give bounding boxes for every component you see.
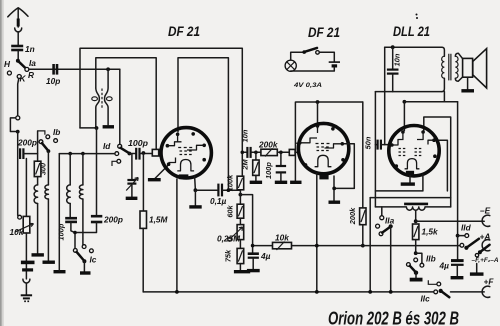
svg-text:100p: 100p [264,162,273,179]
grid cap square V1 [152,149,158,156]
wire to bar [47,199,49,261]
coil L2a [34,185,38,204]
svg-text:DF 21: DF 21 [308,25,340,40]
wire heater return [369,198,371,292]
cathode ground bar V1 [148,165,169,180]
wire to bar [71,222,75,232]
svg-text:IId: IId [461,223,472,233]
svg-text:200p: 200p [103,215,123,225]
resistor 2M to ground [240,152,262,182]
capacitor 1n [11,44,34,60]
svg-text:10p: 10p [46,76,60,86]
terminal +F arc [482,286,490,297]
node coil junction [68,152,72,156]
wire y153.5 left section [59,153,115,155]
svg-text:300: 300 [39,162,48,175]
capacitor 10n [387,47,402,91]
tube V1 DF21 [161,128,211,180]
coil L2b [45,185,49,199]
switch IIa [376,207,395,236]
capacitor 0,1u [210,184,227,206]
wire under V3 a [375,175,423,191]
resistor 200k horizontal [258,140,278,157]
wire B+ rail V2 [296,101,363,103]
chassis bar [54,270,66,273]
svg-text:H: H [4,59,11,69]
svg-text:1,5M: 1,5M [149,215,169,225]
wire to grid cap [140,153,152,155]
wire Ib top drop [37,131,39,161]
svg-text:4µ: 4µ [439,261,450,271]
wire grid line V2 [242,151,246,153]
svg-text:75k: 75k [224,249,233,262]
contact Id lower [115,152,119,156]
ground symbol [21,283,32,301]
node: antenna switch junction [16,59,20,63]
capacitor 100p [128,138,148,160]
wire to bar [37,204,39,255]
scan edge shading [0,0,2,326]
svg-text:60k: 60k [225,204,234,217]
wire Ib arm drop [47,151,49,185]
svg-text:10n: 10n [393,53,402,66]
svg-text:–E: –E [480,206,491,216]
chassis bar under osc [103,125,114,128]
wire L3b drop [82,154,84,185]
svg-text:10k: 10k [10,227,24,237]
wire under V3 b [370,197,451,199]
wire y153 corner to L3a [69,154,71,185]
svg-text:100p: 100p [57,223,66,240]
svg-text:10n: 10n [241,129,250,142]
resistor 100k [225,174,243,191]
chassis bar [43,261,55,264]
resistor 1,5k [413,224,439,253]
resistor 10k horizontal [273,233,292,251]
terminal +A [480,232,491,251]
wire DLL top frame [385,46,442,48]
wire anode 2 V3 [435,140,447,191]
capacitor 4u second [439,236,464,278]
svg-text:IIa: IIa [385,216,395,226]
wire anode/AVC y190 [195,189,217,191]
svg-text:IIb: IIb [426,254,436,264]
svg-text:1n: 1n [25,44,35,54]
bus right section [451,291,485,293]
plug bracket [10,118,15,132]
output transformer T1 [442,47,463,91]
wire link rails [443,92,445,102]
wire to Ic [82,199,84,245]
wire down to 200k V2 [362,102,364,208]
capacitor 100p grid V2 [264,152,287,182]
trimmer capacitor [126,154,139,199]
wire pot chain down [25,233,27,279]
capacitor 50n [363,136,390,149]
svg-text:+F: +F [484,277,495,287]
wire osc bottom [80,127,96,129]
filament lead V2 left [316,173,318,292]
wire outer loop [80,48,242,176]
center tap node [414,210,418,223]
wire to V2 top pin [317,102,319,128]
cathode bar V2 [290,181,301,184]
filament choke core [404,203,428,206]
speaker [461,49,486,91]
coil L3b [79,185,83,199]
switch IId [456,223,479,250]
svg-text:IIc: IIc [421,294,431,304]
wire B+ rail V3 [403,100,458,104]
wire coupling line x375 [374,92,376,207]
wire antenna RF line [29,68,120,70]
wire drop to Id [119,69,121,144]
resistor 200k V2 anode [348,207,366,248]
coil L3a [67,185,71,204]
wire from K down [18,78,19,115]
capacitor 4u first [247,251,271,271]
svg-text:Ic: Ic [90,255,97,265]
filament lead V1 right + node [189,176,201,207]
switch -F/+F [472,245,499,264]
wire to 100p [129,153,135,155]
wire inner loop 2 [178,58,228,190]
wire down to pot wiper [17,132,19,216]
tube V3 DLL21 [389,126,439,176]
svg-text:–F,+F₂–A: –F,+F₂–A [472,257,499,264]
switch IIb [407,251,436,279]
svg-text:DLL 21: DLL 21 [393,24,430,39]
svg-text:Orion 202 B és 302 B: Orion 202 B és 302 B [328,309,459,326]
filament choke winding [375,207,450,210]
capacitor 10p [46,64,60,86]
switch IIc [421,280,450,303]
wire 200p down [75,222,97,248]
capacitor 200p second [91,215,123,225]
resistor 300 [34,161,47,185]
capacitor 100p series [241,129,251,158]
chassis bar narrow [22,268,33,271]
cathode bar V3 [401,175,415,184]
wire lower frame [375,91,441,93]
svg-text:10k: 10k [275,233,289,243]
ground bar under 75k [234,264,250,272]
contact K [17,75,21,79]
wire IIa to bus [390,226,392,292]
svg-text:4V 0,3A: 4V 0,3A [293,82,322,89]
contact H [7,71,11,75]
svg-text:100p: 100p [128,138,148,148]
capacitor 1000p [57,218,77,240]
svg-text:200k: 200k [348,207,357,225]
dial lamp circuit [285,48,340,89]
antenna [8,8,28,45]
terminal -E [480,206,491,227]
svg-text:Id: Id [103,141,111,151]
wire AVC to 10k line [240,195,252,253]
svg-text:Ia: Ia [29,58,36,68]
potentiometer 0,25M [217,218,244,243]
svg-text:DF 21: DF 21 [168,24,200,39]
potentiometer 10k [10,159,34,238]
node 1.5M tap [142,151,146,155]
svg-text:Ib: Ib [53,127,60,137]
wire to V2 left pin [294,102,296,181]
chassis bar [32,253,44,256]
svg-text:200k: 200k [258,140,278,150]
svg-text:200p: 200p [17,138,37,148]
wire inner loop 1 [96,58,156,149]
node junction [16,130,20,134]
wire HT down right side [457,102,459,236]
connector Ib upper contact [16,116,20,120]
chassis bar wide [21,261,35,265]
contact Id aux [112,159,121,166]
tube V2 DF21 [298,123,349,179]
svg-text:100k: 100k [225,174,234,191]
svg-text:0,25M: 0,25M [217,234,241,244]
wire -E line [416,220,485,222]
switch Ia [4,58,36,84]
bottom bus [143,291,434,293]
node under 100k [239,193,243,197]
wire left frame side [384,47,386,144]
anode jog V2 [334,144,354,189]
switch Ic [73,245,96,273]
node 10k/V2 filament [315,244,319,248]
wire to V3 top pin [403,102,404,132]
ink speck [416,14,418,16]
switch Id [103,141,129,153]
node Id arm [127,152,131,156]
wire IF return [58,154,60,271]
svg-text:0,1µ: 0,1µ [210,196,227,206]
oscillator coil L1 [92,69,112,126]
grid cap square V2 [289,149,295,155]
svg-text:1,5k: 1,5k [422,227,439,237]
wire 10k line long [253,245,461,247]
svg-text:50n: 50n [363,136,372,149]
switch Ib [38,127,60,153]
connector hook [23,279,30,283]
node AVC corner [251,244,255,248]
resistor 1,5M [140,153,169,292]
wire long down from osc node [96,128,98,216]
wire to 1000p [69,204,71,218]
node [81,152,85,156]
wire anode loop V3 [424,117,451,207]
capacitor 200p [17,138,38,160]
resistor 60k [225,190,243,218]
ground +F tap [470,264,494,287]
svg-text:R: R [28,70,34,80]
node cap junction [73,231,77,235]
filament lead V1 left [176,179,178,292]
resistor 75k [224,240,244,264]
svg-text:4µ: 4µ [260,251,271,261]
svg-text:2M: 2M [240,159,249,171]
node on RF line [106,67,110,71]
filament lead V2 right [329,176,341,202]
